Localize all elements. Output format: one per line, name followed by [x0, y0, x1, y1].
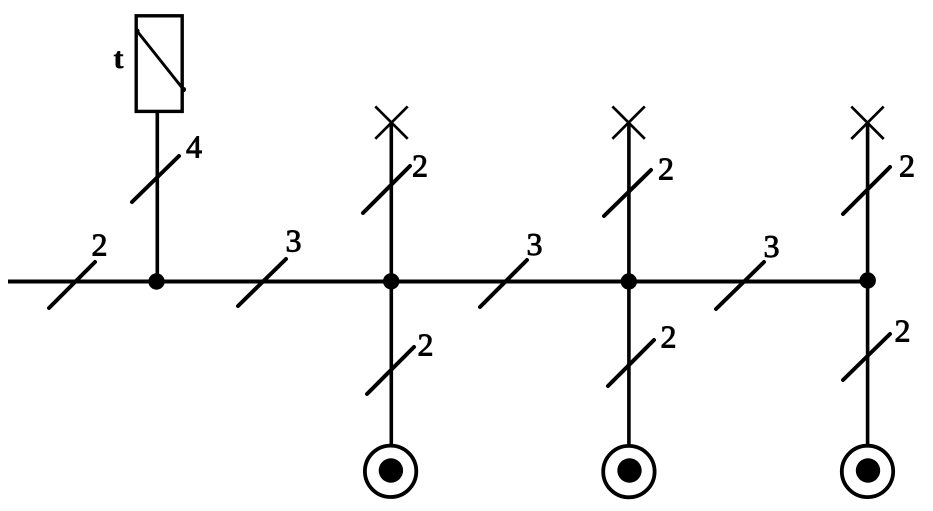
- conductor count slash on lamp E2 wire: [604, 170, 651, 216]
- conductor count slash on socket X2 wire: [608, 340, 654, 386]
- conductor count slash on bus segment N1-N2: [238, 259, 286, 306]
- lamp E3: [851, 107, 883, 139]
- svg-text:3: 3: [527, 226, 543, 262]
- conductor count slash on bus segment N3-N4: [716, 262, 764, 309]
- conductor count slash on lamp E3 wire: [843, 167, 890, 214]
- svg-text:2: 2: [658, 151, 674, 187]
- wire from thermostat T1 to node N1: [156, 112, 160, 282]
- thermostat T1 body: [136, 16, 182, 112]
- wire from lamp E3 to node N4: [866, 123, 870, 282]
- svg-text:2: 2: [895, 313, 911, 349]
- wire from node N2 to socket X1: [389, 282, 393, 446]
- svg-text:2: 2: [412, 148, 428, 184]
- svg-text:3: 3: [286, 223, 302, 259]
- svg-text:t: t: [114, 42, 124, 75]
- svg-text:2: 2: [899, 148, 915, 184]
- svg-text:4: 4: [186, 129, 202, 165]
- svg-text:2: 2: [418, 327, 434, 363]
- svg-text:2: 2: [92, 227, 108, 263]
- conductor count slash on thermostat wire: [132, 156, 179, 202]
- wire from lamp E2 to node N3: [627, 123, 631, 282]
- main bus wire: [8, 280, 868, 284]
- conductor count slash on socket X1 wire: [367, 347, 414, 394]
- socket outlet X2: [603, 446, 654, 497]
- svg-text:3: 3: [764, 228, 780, 264]
- socket outlet X1: [365, 446, 416, 497]
- junction node N4: [860, 272, 876, 288]
- conductor count slash on socket X3 wire: [843, 334, 890, 380]
- lamp E1: [375, 106, 407, 138]
- junction node N1: [148, 273, 164, 289]
- wire from node N4 to socket X3: [866, 282, 870, 446]
- lamp E2: [612, 106, 644, 138]
- conductor count slash on bus segment left of node N1: [49, 262, 95, 308]
- wire from node N3 to socket X2: [627, 282, 631, 446]
- conductor count slash on bus segment N2-N3: [480, 260, 527, 307]
- junction node N2: [383, 273, 399, 289]
- junction node N3: [621, 273, 637, 289]
- conductor count slash on lamp E1 wire: [363, 166, 410, 213]
- thermostat T1 diagonal: [134, 28, 186, 92]
- svg-text:2: 2: [661, 319, 677, 355]
- socket outlet X3: [842, 446, 893, 497]
- wire from lamp E1 to node N2: [389, 123, 393, 282]
